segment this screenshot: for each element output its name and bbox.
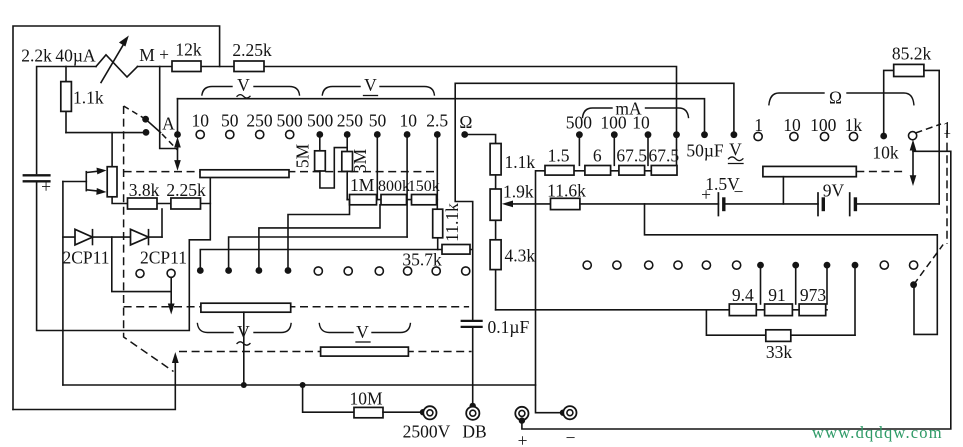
svg-text:0.1µF: 0.1µF: [488, 317, 530, 337]
contact AC switch right: [167, 269, 175, 277]
node minus jack dot: [560, 410, 566, 416]
jack minus: [563, 406, 576, 419]
wire shunt chain y203.5: [112, 197, 210, 204]
svg-text:2CP11: 2CP11: [62, 248, 109, 268]
svg-text:+: +: [41, 177, 51, 197]
brace V~ (AC ranges): [202, 87, 300, 96]
gang dashed vertical left: [124, 106, 174, 372]
Ω wiper double arrow: [912, 144, 914, 181]
wiper A double arrow: [177, 141, 179, 165]
svg-text:10: 10: [191, 111, 209, 131]
svg-text:33k: 33k: [766, 342, 793, 362]
zero adjust arrows: [86, 171, 102, 173]
meter M zigzag with arrow: [96, 55, 138, 77]
deck1 dashed wiper track: [124, 171, 439, 173]
svg-text:50µF: 50µF: [686, 141, 724, 161]
svg-text:1.1k: 1.1k: [73, 88, 104, 108]
deck2 DC dashed wiper track: [179, 351, 472, 353]
wire deck2 tap 50V: [229, 237, 408, 271]
wire main top net y66: [138, 67, 677, 166]
node V~ output contact: [731, 131, 738, 138]
svg-text:67.5: 67.5: [616, 146, 647, 166]
resistor 973: [799, 304, 826, 316]
svg-text:67.5: 67.5: [648, 146, 679, 166]
svg-text:−: −: [734, 182, 744, 202]
svg-text:3M: 3M: [350, 148, 370, 173]
battery 1.5V: [717, 193, 719, 216]
svg-text:2CP11: 2CP11: [140, 248, 187, 268]
deck2 right contact dots: [757, 262, 764, 269]
Ω range open contacts: [754, 132, 762, 140]
wiper arrow into 1.9k: [508, 203, 551, 205]
wire M+ down to wiper A: [160, 67, 178, 149]
wire pot top to bridge: [111, 133, 113, 167]
wire 10M to 2500V jack: [383, 411, 424, 413]
deck1 open contacts (AC V): [196, 130, 204, 138]
mA contact risers: [578, 135, 580, 166]
svg-text:9.4: 9.4: [732, 285, 754, 305]
svg-text:91: 91: [768, 285, 786, 305]
wire capacitor bottom to shunt right end: [37, 177, 211, 331]
resistor 35.7k: [442, 245, 470, 255]
diode D1 2CP11: [75, 229, 93, 245]
svg-text:−: −: [566, 428, 576, 447]
arrow AC switch down: [170, 278, 172, 309]
resistor 10M: [354, 407, 383, 417]
brace V~ (deck2): [197, 324, 291, 333]
wire outer top-left rail: [13, 26, 220, 410]
svg-text:1.1k: 1.1k: [505, 152, 536, 172]
svg-text:2.25k: 2.25k: [166, 180, 206, 200]
resistor 5M: [315, 151, 326, 171]
deck2 left open contacts: [314, 267, 322, 275]
resistor 1.1k (left) riser: [65, 67, 67, 133]
Ω wiper bar: [763, 166, 856, 176]
jack DB: [466, 407, 479, 420]
switch blade solid diagonal: [146, 119, 161, 132]
svg-text:V: V: [237, 75, 250, 95]
wire deck2 tap 250V: [259, 205, 380, 271]
wire battery minus return: [645, 204, 938, 335]
svg-text:1.5: 1.5: [548, 146, 570, 166]
wire 10M tap: [303, 385, 354, 412]
svg-text:85.2k: 85.2k: [892, 44, 932, 64]
svg-text:100: 100: [600, 113, 627, 133]
wire rectifier tap to AC contact: [112, 237, 171, 292]
resistor 150k: [412, 195, 437, 205]
svg-text:2.5: 2.5: [426, 111, 448, 131]
wire deck2 tap 10V to 35.7k: [200, 250, 472, 271]
brace Ω: [769, 93, 914, 105]
svg-text:10: 10: [400, 111, 418, 131]
resistor 67.5 (first): [619, 166, 645, 176]
resistor 1.9k: [490, 189, 501, 220]
svg-text:150k: 150k: [408, 178, 440, 195]
contact AC switch left: [136, 270, 144, 278]
svg-text:1: 1: [943, 118, 952, 138]
resistor 11.1k: [433, 209, 443, 238]
deck2 AC wiper bar: [201, 303, 291, 312]
wire 11.1k bottom tee: [437, 238, 439, 250]
wire battery rail y203.9: [580, 203, 719, 205]
diode D2 2CP11: [131, 229, 149, 245]
svg-text:Ω: Ω: [829, 88, 842, 108]
svg-text:10M: 10M: [349, 389, 383, 409]
wire 5M to 3M jog: [320, 148, 347, 188]
svg-text:V: V: [364, 75, 377, 95]
svg-text:Ω: Ω: [459, 112, 472, 132]
deck2 AC dashed wiper track: [124, 306, 470, 308]
wire deck2 tap 500V: [288, 200, 350, 271]
resistor 9.4: [729, 304, 756, 316]
resistor 12k: [172, 61, 201, 72]
wire 33k bypass: [706, 310, 765, 335]
wire bottom-left rail to lower wiper: [13, 359, 175, 410]
svg-text:250: 250: [337, 111, 364, 131]
deck1 DC V contact dots: [316, 131, 323, 138]
deck2 DC wiper bar: [321, 347, 409, 356]
svg-text:www.dqdqw.com: www.dqdqw.com: [812, 423, 943, 442]
svg-text:V: V: [356, 322, 369, 342]
svg-text:500: 500: [566, 113, 593, 133]
Ω deck dashed track: [856, 171, 905, 173]
brace V= (DC ranges): [322, 87, 434, 96]
svg-text:500: 500: [307, 111, 334, 131]
node deck2 right wiper feed: [910, 281, 917, 288]
svg-text:12k: 12k: [175, 40, 202, 60]
svg-text:500: 500: [276, 111, 303, 131]
wire pot tap: [63, 181, 86, 183]
gang dashed diagonal blade to wiper A: [162, 134, 177, 150]
node junction bar1/common: [241, 382, 247, 388]
wire plus jack bottom rail: [522, 151, 951, 429]
wire divider row y199.6: [347, 199, 437, 201]
svg-text:11.1k: 11.1k: [442, 203, 462, 242]
svg-text:M: M: [139, 45, 155, 65]
jack 2500V: [423, 406, 436, 419]
svg-text:11.6k: 11.6k: [547, 181, 586, 201]
resistor 800k: [381, 195, 407, 205]
wire divider column: [495, 144, 497, 310]
svg-text:+: +: [159, 45, 169, 65]
node upper bridge contact: [142, 116, 149, 123]
resistor 3M: [342, 152, 353, 172]
resistor 6: [585, 166, 611, 176]
wire capacitor top to meter: [37, 67, 96, 174]
deck2 left contact dots: [197, 267, 204, 274]
wire divider bottom rail y309.8: [496, 309, 730, 311]
svg-text:6: 6: [593, 146, 602, 166]
node contact A + riser to top rail: [177, 99, 179, 133]
svg-text:V: V: [237, 322, 250, 342]
wire mA chain row y170.8: [545, 170, 677, 172]
resistor 11.6k: [551, 198, 580, 209]
wire cap to DB jack: [472, 327, 474, 406]
wire 10k contact to 85.2k: [884, 70, 894, 136]
wire rectifier left rail: [62, 182, 64, 386]
wiper arrow (lower V deck): [172, 352, 179, 363]
svg-text:800k: 800k: [378, 178, 410, 195]
wire bridge node y132.6: [66, 132, 146, 134]
capacitor C electrolytic plates: [24, 174, 50, 176]
resistor 1.1k (divider): [490, 144, 501, 175]
resistor 2.25k (top): [234, 61, 264, 72]
svg-text:2.2k: 2.2k: [21, 46, 52, 66]
node DB jack dot: [470, 403, 476, 409]
svg-text:9V: 9V: [823, 181, 845, 201]
wire Ω contact to divider: [465, 135, 496, 144]
wire Ω bar drop to battery rail: [782, 177, 784, 204]
svg-text:50: 50: [369, 111, 387, 131]
svg-text:2.25k: 2.25k: [232, 40, 272, 60]
node 2500V jack dot: [420, 409, 426, 415]
svg-text:1M: 1M: [350, 175, 375, 195]
svg-text:A: A: [162, 114, 175, 134]
deck2 right open contacts: [583, 261, 591, 269]
resistor 67.5 (second): [651, 166, 677, 176]
wire AC volt rail y83.3: [455, 83, 734, 321]
contact Ω wiper circle: [909, 132, 917, 140]
resistor 2.25k (shunt): [171, 198, 201, 209]
svg-text:DB: DB: [462, 422, 486, 442]
node 50µF contact: [701, 131, 708, 138]
gang dashed diagonal to blade: [124, 106, 146, 119]
svg-text:50: 50: [221, 111, 239, 131]
wire common rail y385: [63, 384, 536, 386]
capacitor 0.1µF: [462, 320, 482, 322]
svg-text:10k: 10k: [872, 143, 899, 163]
resistor 1M: [350, 195, 377, 205]
svg-text:2500V: 2500V: [403, 422, 451, 442]
mA contact dots: [576, 131, 583, 138]
svg-text:5M: 5M: [293, 143, 313, 168]
svg-text:+: +: [518, 431, 528, 447]
brace V= (deck2): [319, 324, 410, 333]
wire diode2 cathode riser: [161, 209, 163, 237]
resistor 3.8k: [128, 198, 158, 209]
wire ohm adj row y309.8: [729, 309, 827, 311]
node junction 10M tap: [300, 382, 306, 388]
wire 85.2k to battery plus: [924, 70, 939, 204]
deck1 DC V contact risers: [319, 135, 321, 151]
wire bar1 drop to common: [243, 312, 245, 385]
wire 3M bottom to 1M: [346, 171, 348, 199]
svg-text:250: 250: [246, 111, 273, 131]
svg-text:973: 973: [800, 285, 827, 305]
battery 9V cells: [817, 193, 819, 216]
node lower bridge contact: [143, 129, 150, 136]
resistor 4.3k: [490, 240, 501, 270]
deck1 wiper bar: [200, 170, 289, 178]
deck2 right contact risers: [760, 265, 762, 304]
wire diode rail y237: [63, 236, 162, 238]
svg-text:3.8k: 3.8k: [129, 180, 160, 200]
svg-text:10: 10: [632, 113, 650, 133]
wire mA chain left drop to minus jack: [536, 171, 564, 413]
gang dashed diagonal to position 1: [916, 124, 942, 133]
resistor 1.5: [545, 166, 574, 176]
resistor 33k: [766, 330, 791, 342]
potentiometer (zero adjust) body: [107, 167, 117, 197]
svg-text:4.3k: 4.3k: [505, 246, 536, 266]
gang dashed vertical right: [946, 130, 948, 244]
svg-text:40µA: 40µA: [55, 46, 96, 66]
gang dashed diagonal deck2 right: [914, 245, 944, 285]
wire deck1 top rail y98.7: [178, 99, 705, 133]
jack plus: [515, 407, 528, 420]
resistor 85.2k: [894, 64, 924, 76]
svg-text:1.9k: 1.9k: [503, 182, 534, 202]
resistor 91: [765, 304, 793, 316]
svg-text:+: +: [701, 185, 711, 205]
brace mA: [583, 108, 689, 118]
